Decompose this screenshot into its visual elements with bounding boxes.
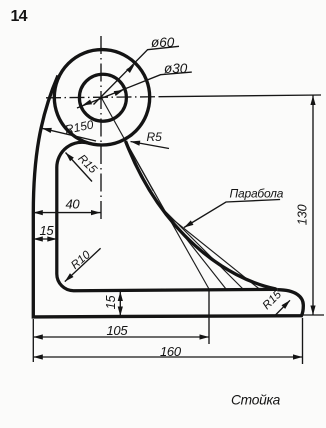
dim 15 left [33,238,57,240]
horizontal centerline [46,97,160,98]
construction chord [126,141,210,289]
svg-text:40: 40 [66,197,81,212]
svg-text:105: 105 [107,323,129,338]
105 extension [208,290,210,344]
construction fan line 2 [157,203,243,289]
construction fan line 3 [164,212,261,290]
bottom right extension [303,314,324,316]
label Parabola leader [184,200,280,228]
outline: left R150 edge, base, right nose [33,76,303,317]
vertical centerline [100,36,102,219]
construction line center to parabola junction [101,97,153,191]
svg-text:ø60: ø60 [151,35,175,50]
inner contour: R15 fillet, vertical, R10 fillet, web top [57,142,278,290]
inner circle O30 [79,74,126,121]
svg-text:R5: R5 [147,130,163,144]
svg-text:15: 15 [104,295,118,309]
svg-text:130: 130 [296,204,310,225]
label O60 leader [94,46,180,104]
label R5 leader [131,142,170,149]
extension line from center to 130 dim [160,95,321,97]
outer circle O60 [54,50,149,145]
label R15 nose leader [275,300,290,315]
dim 40 [33,212,100,214]
svg-text:Парабола: Парабола [230,187,284,201]
svg-text:14: 14 [11,8,28,25]
left extension below base [32,319,34,362]
label R10 leader [65,248,101,281]
svg-text:R15: R15 [261,288,285,312]
dim 105 [33,336,209,338]
svg-text:Стойка: Стойка [231,393,281,408]
dim 130 line [312,96,314,316]
svg-text:ø30: ø30 [164,61,188,76]
label O30 leader [77,72,192,108]
right extension below base [302,318,304,364]
label R15 upper leader [66,153,93,182]
dim 160 [33,356,302,358]
parabola outline [126,141,277,289]
svg-text:R15: R15 [75,153,99,177]
svg-text:160: 160 [160,344,182,359]
svg-text:R10: R10 [69,249,93,272]
svg-text:15: 15 [40,223,55,238]
dim 15 right [119,292,121,317]
svg-text:R150: R150 [64,117,95,136]
label R150 leader [42,128,96,141]
construction fan line 1 [151,194,226,289]
